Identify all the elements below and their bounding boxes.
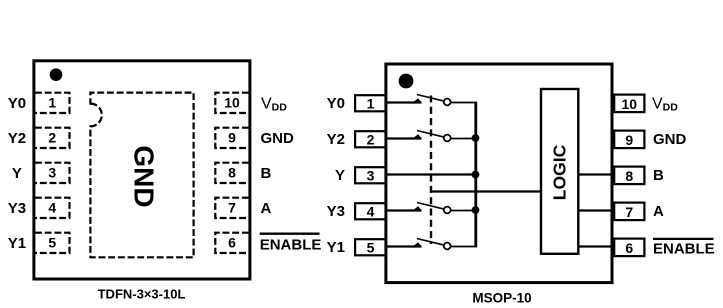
svg-text:LOGIC: LOGIC: [550, 144, 570, 200]
svg-text:4: 4: [367, 204, 375, 220]
wire pin4 pole (MSOP switch S3): [387, 209, 422, 211]
switch S1 arm: [417, 95, 444, 102]
pin 10 box (MSOP): [614, 95, 644, 113]
wire common bus vertical: [474, 102, 477, 248]
wire pin1 pole (MSOP switch S1): [387, 101, 422, 103]
pin 4 box (MSOP): [355, 203, 386, 219]
svg-text:8: 8: [625, 168, 633, 184]
svg-text:GND: GND: [129, 145, 160, 207]
junction dot Y/bus: [472, 171, 480, 179]
svg-text:1: 1: [48, 95, 56, 111]
svg-text:10: 10: [224, 95, 240, 111]
svg-text:5: 5: [367, 240, 375, 256]
switch S4 pole arrow: [412, 242, 421, 246]
svg-text:Y3: Y3: [327, 203, 345, 220]
svg-text:Y3: Y3: [8, 200, 26, 217]
pin 1 box (MSOP): [355, 95, 386, 111]
pin 5 box (MSOP): [355, 239, 386, 255]
svg-text:Y2: Y2: [8, 130, 26, 147]
wire control to LOGIC: [430, 190, 541, 192]
pin 2 box (MSOP): [355, 131, 386, 147]
pin 3 box (MSOP): [355, 167, 386, 183]
exposed GND pad with index notch (TDFN): [90, 93, 193, 258]
logic block U3: [541, 89, 578, 254]
wire LOGIC to pin 7 A: [579, 209, 614, 211]
package U2 MSOP-10 outline: [386, 64, 612, 283]
pin 6 pad (TDFN): [215, 233, 249, 253]
svg-text:ENABLE: ENABLE: [260, 237, 322, 254]
pin 8 box (MSOP): [614, 167, 644, 185]
svg-text:6: 6: [228, 235, 236, 251]
switch S2 arm: [417, 131, 444, 138]
svg-text:Y0: Y0: [327, 95, 345, 112]
pin 1 pad (TDFN): [35, 93, 70, 113]
svg-text:GND: GND: [653, 131, 687, 148]
svg-text:3: 3: [48, 165, 56, 181]
svg-text:A: A: [653, 203, 664, 220]
pin 2 pad (TDFN): [35, 128, 70, 148]
svg-text:MSOP-10: MSOP-10: [472, 291, 531, 306]
svg-text:TDFN-3×3-10L: TDFN-3×3-10L: [98, 287, 186, 302]
wire S4 to bus: [451, 246, 477, 248]
pin 1 indicator dot (MSOP): [399, 74, 414, 89]
switch S2 pole arrow: [412, 134, 421, 138]
svg-text:8: 8: [228, 165, 236, 181]
svg-text:2: 2: [48, 130, 56, 146]
pin 4 pad (TDFN): [35, 198, 70, 218]
svg-text:Y1: Y1: [327, 239, 345, 256]
wire S2 to bus: [451, 138, 476, 140]
wire LOGIC to pin 8 B: [579, 173, 614, 175]
switch S3 throw contact: [444, 207, 451, 214]
svg-text:Y: Y: [335, 167, 345, 184]
switch S4 arm: [417, 239, 444, 246]
svg-text:GND: GND: [261, 130, 295, 147]
svg-text:A: A: [261, 200, 272, 217]
switch S4 throw contact: [444, 243, 451, 250]
svg-text:6: 6: [625, 240, 633, 256]
pin 3 pad (TDFN): [35, 163, 70, 183]
pin 7 pad (TDFN): [215, 198, 249, 218]
switch S3 pole arrow: [412, 206, 421, 210]
junction dot S2/bus: [472, 134, 480, 142]
pin 1 indicator dot (TDFN): [50, 68, 63, 81]
pin 10 pad (TDFN): [215, 93, 249, 113]
svg-text:2: 2: [367, 132, 375, 148]
wire switch control line (dashed vertical): [430, 96, 432, 245]
wire LOGIC to pin 6 ENABLE: [579, 245, 614, 247]
switch S3 arm: [417, 203, 444, 210]
pin 5 pad (TDFN): [35, 233, 70, 253]
wire pin5 pole (MSOP switch S4): [387, 245, 422, 247]
pin 7 box (MSOP): [614, 203, 644, 221]
svg-text:Y: Y: [12, 165, 22, 182]
switch S1 throw contact: [444, 99, 451, 106]
svg-text:Y2: Y2: [327, 131, 345, 148]
svg-text:7: 7: [228, 200, 236, 216]
switch S1 pole arrow: [412, 98, 421, 102]
svg-text:9: 9: [625, 132, 633, 148]
pin 8 pad (TDFN): [215, 163, 249, 183]
junction dot S3/bus: [472, 206, 480, 214]
switch S2 throw contact: [444, 135, 451, 142]
pin 9 pad (TDFN): [215, 128, 249, 148]
wire pin3 Y direct to bus: [387, 173, 476, 175]
svg-text:B: B: [653, 167, 664, 184]
svg-text:ENABLE: ENABLE: [653, 241, 715, 258]
svg-text:B: B: [261, 165, 272, 182]
svg-text:Y1: Y1: [8, 235, 26, 252]
svg-text:3: 3: [367, 168, 375, 184]
pin 9 box (MSOP): [614, 131, 644, 149]
svg-text:4: 4: [48, 200, 56, 216]
wire pin2 pole (MSOP switch S2): [387, 137, 422, 139]
svg-text:10: 10: [622, 96, 638, 112]
svg-text:1: 1: [367, 96, 375, 112]
svg-text:5: 5: [48, 235, 56, 251]
svg-text:Y0: Y0: [8, 95, 26, 112]
wire S1 to bus: [451, 102, 477, 104]
wire S3 to bus: [451, 210, 476, 212]
svg-text:7: 7: [625, 204, 633, 220]
package U1 TDFN-3x3-10L outline: [34, 61, 250, 279]
svg-text:9: 9: [228, 130, 236, 146]
pin 6 box (MSOP): [614, 239, 644, 257]
